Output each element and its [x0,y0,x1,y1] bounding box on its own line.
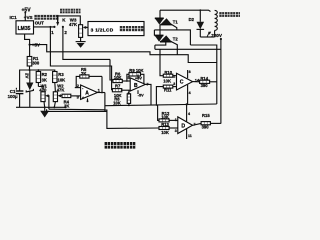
svg-text:10K: 10K [113,101,121,106]
svg-text:3: 3 [173,82,175,86]
svg-text:-5V: -5V [138,94,144,98]
op-amp A [81,85,98,100]
wire reference node rail [20,70,55,91]
potentiometer W2 [53,83,64,109]
power -5V stub B [138,90,144,97]
resistor R10 [160,49,177,78]
diode D2 [197,9,205,37]
triac T2 [155,35,179,41]
resistor R6 [113,71,130,82]
svg-text:C: C [180,80,184,86]
svg-text:K: K [62,17,66,22]
svg-text:4: 4 [189,91,191,95]
svg-text:47K: 47K [69,22,78,27]
resistor R13 [159,122,178,135]
wire ground rail left [16,106,65,108]
wire +5V to R1 [29,45,31,57]
wire zener branch [29,70,31,83]
svg-text:T2: T2 [173,36,179,41]
wire top rail to heater [160,10,211,11]
svg-text:R3: R3 [58,72,64,77]
svg-text:1: 1 [51,30,54,35]
switch K common wire [56,16,80,26]
node 温度设定 label [60,9,81,14]
svg-text:2V: 2V [25,73,30,78]
potentiometer W3 [69,17,83,41]
svg-text:+VS: +VS [24,15,33,20]
svg-text:D: D [181,123,185,129]
sensor IC1 LM35 box [16,21,34,34]
svg-text:R11: R11 [164,88,172,93]
svg-text:2: 2 [173,75,175,79]
resistor R15 [201,113,221,129]
resistor R5 [76,67,102,87]
svg-text:1: 1 [98,87,101,92]
node contact 1 [51,26,55,35]
node contact 2 [62,26,68,35]
svg-text:2K: 2K [64,103,69,108]
wiper W3 arrow [83,26,88,29]
svg-text:3 1/2LCD: 3 1/2LCD [91,27,114,33]
potentiometer W1 [38,83,47,109]
wire +5V rail [30,45,217,63]
wire W2 bottom to rail dot [64,106,66,108]
wire A output bus [104,93,106,112]
svg-text:B: B [134,83,138,89]
svg-text:220V: 220V [211,33,223,38]
gate T1 wire [172,25,177,30]
svg-text:5: 5 [128,76,130,80]
wire B output [145,84,151,105]
wire node1 down [50,27,111,90]
svg-text:+5V: +5V [135,76,142,80]
resistor R14 [200,76,217,88]
svg-text:10K: 10K [161,130,169,135]
gate T2 wire [171,42,177,55]
node 温度显示 label [34,15,58,20]
svg-text:R7: R7 [115,83,121,88]
wire R1 to ref node [29,66,31,70]
meter LCD box [88,22,144,36]
svg-text:6: 6 [128,91,130,95]
power stub C top [188,70,191,78]
node OUT junction [49,26,51,28]
svg-text:1: 1 [175,118,177,122]
wire bus to R12 [158,105,159,120]
wire LM35 ground leg [25,34,30,45]
ground symbol left [40,107,49,117]
svg-text:8: 8 [189,70,191,74]
wiper W2 arrow [58,94,63,97]
resistor R3 [53,72,66,83]
ground symbol W3 [76,42,86,48]
wire T2 bottom [155,42,166,46]
op-amp B [130,78,145,91]
svg-text:100μ: 100μ [8,94,18,99]
node 电热元件 label [219,12,240,17]
wire C output [193,81,200,83]
triac T1 [155,18,179,24]
wire W1 bus lower [47,109,107,111]
zener diode DW [26,83,33,108]
resistor R7 [112,83,130,97]
resistor R9 [126,68,144,84]
resistor R12 [159,111,178,122]
svg-text:IC1: IC1 [10,15,18,20]
wire pin2 stub [75,87,81,89]
wire gate bus left leg [153,30,155,36]
wire W1 bus [49,108,105,111]
svg-text:300: 300 [32,61,40,66]
wire T1 gate bus [154,30,190,45]
svg-text:3: 3 [77,94,80,99]
wire T1 anode top [159,10,161,18]
heater coil [215,10,218,37]
svg-text:D2: D2 [189,17,195,22]
wire node2 to R6 [110,59,113,80]
node 220V mains [207,32,223,41]
node +5V rail label [29,43,41,48]
caption 电路原理图 [105,142,136,149]
svg-text:+5V: +5V [22,7,32,13]
svg-text:3K: 3K [42,78,47,83]
svg-text:LM35: LM35 [18,26,31,32]
wire A output [97,76,105,93]
wire OUT [34,26,55,28]
svg-text:390: 390 [201,83,209,88]
power stub D pin11 [187,129,192,139]
op-amp C [177,73,193,90]
svg-text:390: 390 [202,125,210,130]
svg-text:R15: R15 [202,113,210,118]
svg-text:T1: T1 [173,20,179,25]
svg-text:OUT: OUT [35,21,45,26]
power stub D pin4 [186,103,191,121]
resistor R8 [113,90,130,106]
wire heater bottom [200,36,214,38]
power +5V stub B [135,74,142,80]
svg-text:R2: R2 [42,72,48,77]
wire T1 gate link [190,45,216,104]
resistor R4 [62,94,78,108]
capacitor C1 [8,88,24,108]
svg-text:3: 3 [175,129,177,133]
wire pin3 stub [78,95,81,97]
wire T2 jog [154,45,156,49]
svg-text:2: 2 [64,30,67,35]
svg-text:10K: 10K [58,78,66,83]
wire R15 gate bus [155,48,221,50]
resistor R2 [36,69,47,82]
wire node2 down [63,27,110,60]
wire 220V node down [220,39,222,124]
svg-text:10K: 10K [163,79,171,84]
power stub A [87,98,89,102]
node +5V top arrow [22,7,32,20]
resistor R11 [156,82,177,106]
svg-text:11: 11 [188,134,192,138]
wire A out branch [105,110,159,128]
wire T1 to T2 [159,25,161,36]
op-amp D [178,117,193,134]
wiper W1 arrow [45,94,49,109]
resistor R1 [27,56,40,66]
wire D output [193,123,202,125]
wire B output bus [105,104,217,106]
node junction R1 ref [29,69,31,71]
svg-text:4: 4 [188,112,190,116]
power stub C bottom [188,85,191,105]
svg-text:A: A [85,91,89,97]
